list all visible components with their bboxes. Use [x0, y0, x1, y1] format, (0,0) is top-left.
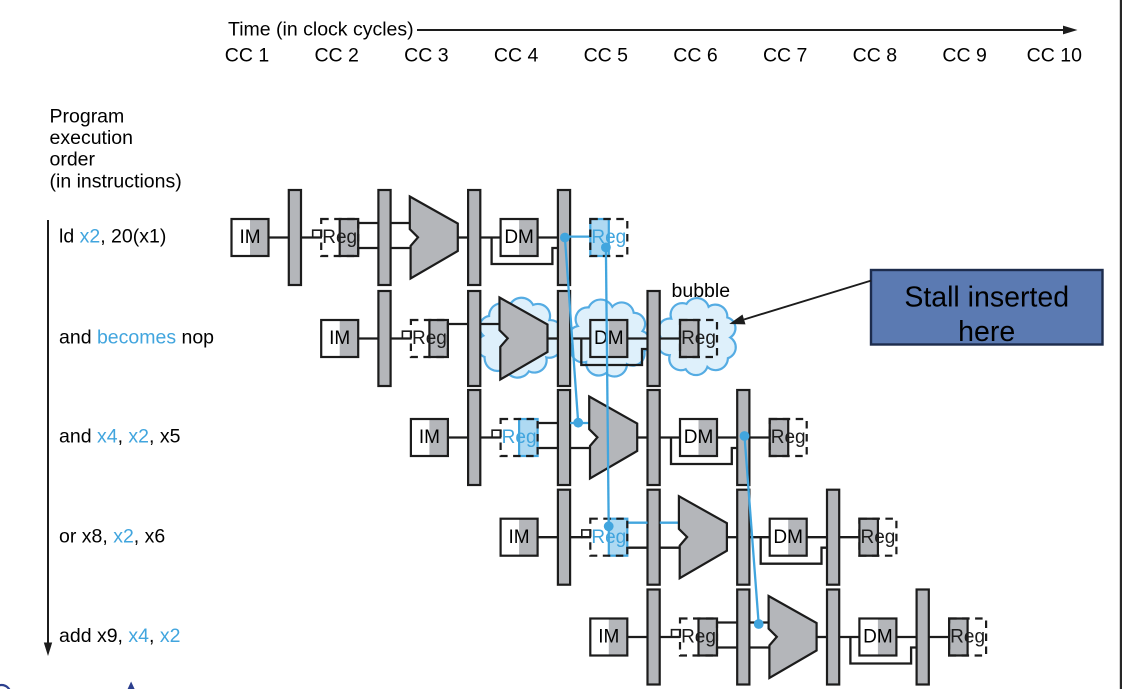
pipeline register MEM/WB bar (nop row)	[648, 291, 660, 386]
wire MEM/WB bar to write-back Reg (nop row)	[660, 337, 680, 339]
wire DM to MEM/WB bar (ld row)	[538, 236, 558, 238]
svg-text:DM: DM	[504, 227, 534, 248]
ALU (nop row, CC4)	[500, 298, 548, 380]
wire ID/EX bar to ALU upper input (add row)	[750, 621, 770, 623]
wire EX/MEM bar to DM (ld row)	[480, 236, 500, 238]
svg-text:CC 4: CC 4	[494, 44, 539, 66]
wire ALU output to EX/MEM bar (nop row)	[548, 337, 558, 339]
time axis arrow	[417, 29, 1064, 31]
pipeline register EX/MEM bar (or row)	[737, 490, 749, 585]
wire MEM/WB bar to write-back Reg (and row)	[750, 436, 770, 438]
svg-text:DM: DM	[863, 627, 893, 648]
svg-text:Reg: Reg	[412, 328, 447, 349]
svg-text:IM: IM	[419, 427, 440, 448]
svg-text:CC 6: CC 6	[673, 44, 717, 66]
wire ALU output to EX/MEM bar (ld row)	[458, 236, 468, 238]
pipeline register IF/ID bar (or row)	[558, 490, 570, 585]
svg-text:or x8, x2, x6: or x8, x2, x6	[59, 525, 165, 547]
wire Reg to ID/EX bar lower (and row)	[538, 447, 558, 449]
wire MEM/WB bar to write-back Reg (or row)	[839, 536, 859, 538]
pipeline register MEM/WB bar (or row)	[827, 490, 839, 585]
svg-text:CC 8: CC 8	[853, 44, 897, 66]
program order arrow (vertical)	[47, 220, 49, 644]
Reg write-back box (add row, CC9)	[949, 619, 986, 656]
wire EX/MEM bar to DM (or row)	[750, 536, 770, 538]
svg-text:IM: IM	[239, 227, 260, 248]
wire IF/ID bar to Reg (or row)	[570, 536, 590, 538]
wire DM to MEM/WB bar (add row)	[896, 636, 916, 638]
wire IM to IF/ID bar (ld row)	[269, 236, 289, 238]
svg-text:CC 9: CC 9	[942, 44, 986, 66]
bubble cloud around EX stage of nop	[477, 298, 563, 378]
pipeline register MEM/WB bar (and row)	[737, 390, 749, 485]
wire ALU output to EX/MEM bar (or row)	[727, 536, 737, 538]
Reg register-read box highlighted blue (or row, CC5)	[590, 519, 627, 556]
wire ID/EX bar to ALU upper input (nop row)	[480, 323, 500, 325]
junction dot on and MEM/WB bar	[740, 431, 750, 441]
wire MEM/WB bar to write-back Reg (add row)	[929, 636, 949, 638]
pipeline register IF/ID bar (and row)	[468, 390, 480, 485]
wire IF/ID bar to Reg (add row)	[660, 636, 680, 638]
wire DM to MEM/WB bar (nop row)	[627, 337, 647, 339]
logo fragment: pen nib tip	[128, 682, 135, 690]
pipeline register IF/ID bar (nop row)	[378, 291, 390, 386]
svg-text:CC 1: CC 1	[225, 44, 269, 66]
bypass wire under DM (or row)	[761, 537, 827, 564]
pipeline register IF/ID bar (ld row)	[289, 190, 301, 285]
svg-text:IM: IM	[329, 328, 350, 349]
blue forwarding line ld MEM/WB to and-EX (line A)	[565, 238, 578, 423]
Reg register-read box (add row, CC6)	[680, 619, 717, 656]
bypass wire under DM (and row)	[671, 438, 737, 465]
wire ID/EX bar to ALU lower input (ld row)	[391, 247, 411, 249]
Reg write-back box (nop row, CC6)	[680, 320, 717, 357]
svg-text:CC 10: CC 10	[1027, 44, 1082, 66]
wire IM to IF/ID bar (nop row)	[358, 337, 378, 339]
DM data-memory box (nop row, CC5)	[590, 320, 627, 357]
svg-text:Reg: Reg	[681, 328, 716, 349]
svg-text:Reg: Reg	[502, 427, 537, 448]
arrow from stall box to bubble	[744, 281, 871, 320]
slide right border line	[1120, 0, 1122, 689]
svg-text:Time (in clock cycles): Time (in clock cycles)	[228, 19, 414, 41]
clock-edge bump at Reg input (nop row)	[402, 331, 411, 339]
wire Reg to ID/EX bar lower (add row)	[717, 646, 737, 648]
wire Reg to ID/EX bar upper (ld row)	[358, 222, 378, 224]
bypass wire under DM (nop row)	[581, 339, 647, 366]
wire DM to MEM/WB bar (and row)	[717, 436, 737, 438]
Reg write-back box highlighted blue (ld row, CC5)	[590, 219, 627, 256]
bypass wire under DM (ld row)	[492, 238, 558, 265]
pipeline register MEM/WB bar (add row)	[917, 590, 929, 685]
wire Reg to ID/EX bar lower (or row)	[627, 547, 647, 549]
DM data-memory box (add row, CC8)	[859, 619, 896, 656]
pipeline register ID/EX bar (and row)	[558, 390, 570, 485]
svg-text:IM: IM	[598, 627, 619, 648]
wire ALU output to EX/MEM bar (add row)	[817, 636, 827, 638]
wire (blue) MEM/WB bar to write-back Reg (ld row)	[564, 235, 590, 237]
IM instruction-memory box (nop row, CC2)	[321, 320, 358, 357]
junction dot in ld write-back Reg	[601, 243, 611, 253]
wire Reg to ID/EX bar upper (nop row)	[448, 323, 468, 325]
wire ID/EX bar to ALU lower input (or row)	[660, 547, 680, 549]
svg-text:Reg: Reg	[681, 627, 716, 648]
DM data-memory box (ld row, CC4)	[501, 219, 538, 256]
svg-text:Programexecutionorder(in instr: Programexecutionorder(in instructions)	[50, 105, 182, 192]
pipeline register MEM/WB bar (ld row)	[558, 190, 570, 285]
wire ID/EX bar to ALU lower input (and row)	[570, 447, 590, 449]
wire IM to IF/ID bar (add row)	[627, 636, 647, 638]
clock-edge bump at Reg input (or row)	[582, 530, 591, 538]
wire Reg to ID/EX bar lower (ld row)	[358, 247, 378, 249]
svg-text:DM: DM	[594, 328, 624, 349]
junction dot on ld MEM/WB bar	[560, 233, 570, 243]
wire IM to IF/ID bar (or row)	[538, 536, 558, 538]
svg-text:DM: DM	[773, 527, 803, 548]
svg-text:Reg: Reg	[860, 527, 895, 548]
ALU (ld row, CC3)	[410, 197, 458, 279]
svg-text:bubble: bubble	[672, 280, 731, 302]
bubble cloud around MEM stage of nop	[568, 300, 650, 377]
svg-text:CC 3: CC 3	[404, 44, 448, 66]
DM data-memory box (or row, CC7)	[770, 519, 807, 556]
svg-text:Reg: Reg	[950, 627, 985, 648]
ALU (or row, CC6)	[679, 496, 727, 578]
ALU (and row, CC5)	[589, 397, 637, 479]
pipeline register ID/EX bar (nop row)	[468, 291, 480, 386]
wire ALU output to EX/MEM bar (and row)	[637, 436, 647, 438]
clock-edge bump at Reg input (ld row)	[313, 230, 322, 238]
bubble cloud around WB stage of nop	[658, 298, 736, 375]
junction dot at and-row ALU upper input	[573, 418, 583, 428]
Reg register-read box highlighted blue (and row, CC4)	[501, 419, 538, 456]
Reg register-read box (ld row, CC2)	[321, 219, 358, 256]
wire (blue, forwarded) ID/EX bar to ALU upper input (and row)	[570, 422, 590, 424]
wire EX/MEM bar to DM (add row)	[839, 636, 859, 638]
callout box: Stall inserted here	[871, 270, 1103, 345]
IM instruction-memory box (and row, CC3)	[411, 419, 448, 456]
svg-text:and becomes nop: and becomes nop	[59, 327, 214, 349]
pipeline register ID/EX bar (ld row)	[378, 190, 390, 285]
clock-edge bump at Reg input (add row)	[672, 630, 681, 638]
wire (blue) ID/EX bar to ALU upper input (or row)	[660, 522, 680, 524]
wire (blue, forwarded via register file) Reg to ID/EX bar upper (or row)	[627, 522, 647, 524]
wire EX/MEM bar to DM (and row)	[660, 436, 680, 438]
svg-text:IM: IM	[509, 527, 530, 548]
svg-text:and x4, x2, x5: and x4, x2, x5	[59, 426, 181, 448]
clock-edge bump at Reg input (and row)	[492, 430, 501, 438]
svg-text:Reg: Reg	[322, 227, 357, 248]
pipeline register IF/ID bar (add row)	[648, 590, 660, 685]
pipeline register ID/EX bar (or row)	[648, 490, 660, 585]
svg-text:add x9, x4, x2: add x9, x4, x2	[59, 625, 180, 647]
logo fragment: partial circle at bottom left	[0, 685, 11, 694]
junction dot in or-row read Reg	[604, 521, 614, 531]
svg-text:Reg: Reg	[771, 427, 806, 448]
wire IF/ID bar to Reg (nop row)	[391, 337, 411, 339]
wire ID/EX bar to ALU upper input (ld row)	[391, 222, 411, 224]
junction dot at add-row ALU upper input	[754, 619, 764, 629]
wire DM to MEM/WB bar (or row)	[807, 536, 827, 538]
wire IF/ID bar to Reg (and row)	[480, 436, 500, 438]
wire ID/EX bar to ALU lower input (add row)	[750, 646, 770, 648]
svg-text:ld x2, 20(x1): ld x2, 20(x1)	[59, 226, 166, 248]
Reg register-read box (nop row, CC3)	[411, 320, 448, 357]
pipeline register ID/EX bar (add row)	[737, 590, 749, 685]
pipeline register EX/MEM bar (and row)	[648, 390, 660, 485]
blue register-file write/read line ld WB to or-ID (line B)	[606, 247, 609, 526]
DM data-memory box (and row, CC6)	[680, 419, 717, 456]
svg-text:CC 7: CC 7	[763, 44, 807, 66]
svg-text:CC 5: CC 5	[584, 44, 629, 66]
wire Reg to ID/EX bar upper (and row)	[538, 422, 558, 424]
IM instruction-memory box (add row, CC5)	[590, 619, 627, 656]
wire IM to IF/ID bar (and row)	[448, 436, 468, 438]
wire Reg to ID/EX bar upper (add row)	[717, 621, 737, 623]
pipeline register EX/MEM bar (ld row)	[468, 190, 480, 285]
pipeline register EX/MEM bar (nop row)	[558, 291, 570, 386]
svg-text:CC 2: CC 2	[314, 44, 358, 66]
blue forwarding line and MEM/WB to add-EX (line C)	[745, 436, 759, 624]
wire EX/MEM bar to DM (nop row)	[570, 337, 590, 339]
svg-text:DM: DM	[684, 427, 714, 448]
Reg write-back box (and row, CC7)	[770, 419, 807, 456]
wire IF/ID bar to Reg (ld row)	[301, 236, 321, 238]
Reg write-back box (or row, CC8)	[859, 519, 896, 556]
pipeline register EX/MEM bar (add row)	[827, 590, 839, 685]
IM instruction-memory box (ld row, CC1)	[232, 219, 269, 256]
ALU (add row, CC7)	[769, 596, 817, 678]
bypass wire under DM (add row)	[850, 637, 916, 664]
IM instruction-memory box (or row, CC4)	[501, 519, 538, 556]
